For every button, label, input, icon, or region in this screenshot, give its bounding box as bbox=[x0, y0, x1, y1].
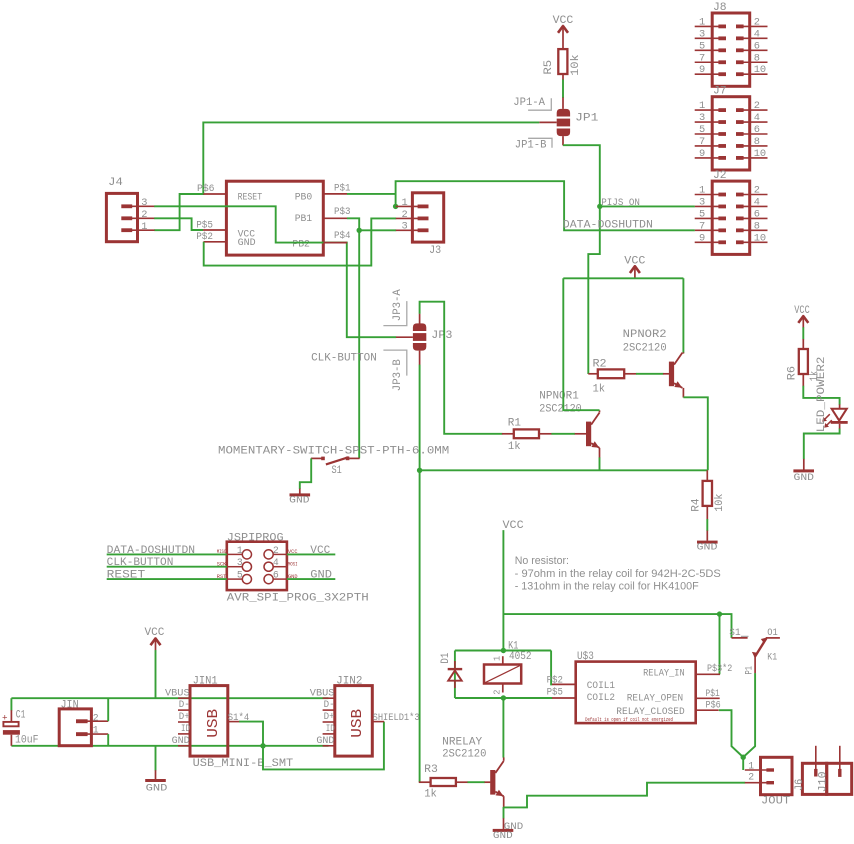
svg-text:6: 6 bbox=[754, 40, 760, 52]
wire JP3-A to R1 left bbox=[420, 302, 503, 434]
pin JP3 top stub bbox=[419, 314, 421, 324]
wire VCC rail to NPNOR2 collector bbox=[682, 278, 684, 353]
svg-text:6: 6 bbox=[754, 124, 760, 136]
svg-text:S1: S1 bbox=[729, 627, 740, 638]
wire NRELAY emitter to GND bbox=[503, 807, 505, 819]
svg-text:1: 1 bbox=[402, 197, 408, 209]
svg-text:P$1: P$1 bbox=[334, 182, 351, 193]
svg-text:9: 9 bbox=[699, 232, 705, 244]
svg-text:1: 1 bbox=[492, 656, 502, 661]
pin P$3 (PB1) bbox=[323, 206, 350, 218]
connector JOUT bbox=[745, 757, 792, 807]
svg-text:C1: C1 bbox=[16, 710, 26, 722]
svg-text:10: 10 bbox=[754, 64, 766, 76]
junction K1 top bbox=[501, 648, 506, 653]
wire VBUS rail bbox=[11, 697, 328, 699]
svg-text:5: 5 bbox=[699, 40, 705, 52]
svg-text:VBUS: VBUS bbox=[165, 687, 190, 698]
svg-text:P$1: P$1 bbox=[706, 688, 720, 699]
label JP3-B with bracket bbox=[383, 350, 406, 391]
svg-text:10k: 10k bbox=[570, 54, 582, 75]
svg-text:NPNOR2: NPNOR2 bbox=[623, 329, 667, 341]
svg-text:5: 5 bbox=[699, 124, 705, 136]
wire bottom rail to R4 top bbox=[420, 469, 708, 471]
ground drop from GND rail bbox=[155, 746, 157, 771]
wire VCC to R6 bbox=[802, 327, 804, 339]
svg-text:R4: R4 bbox=[690, 499, 702, 512]
svg-text:JP1-B: JP1-B bbox=[515, 139, 547, 151]
svg-text:8: 8 bbox=[754, 136, 760, 148]
svg-text:D-: D- bbox=[324, 699, 335, 710]
svg-text:P$3: P$3 bbox=[334, 206, 351, 217]
svg-text:4: 4 bbox=[754, 28, 760, 40]
connector JIN2 USB_MINI-B_SMT bbox=[310, 675, 420, 756]
jumper JP1 bbox=[557, 109, 599, 136]
wire NRELAY emitter to JOUT pin 2 bbox=[504, 783, 746, 808]
svg-text:SHIELD1*3: SHIELD1*3 bbox=[373, 712, 420, 723]
svg-text:4: 4 bbox=[273, 557, 279, 568]
label JP1-B with bracket bbox=[515, 138, 552, 151]
LED LED_POWER2 bbox=[816, 357, 848, 433]
svg-text:1k: 1k bbox=[593, 383, 606, 395]
svg-text:P$4: P$4 bbox=[334, 230, 351, 241]
svg-text:VBUS: VBUS bbox=[310, 687, 335, 698]
connector J2 bbox=[695, 170, 768, 255]
svg-text:9: 9 bbox=[699, 64, 705, 76]
power VCC (top, above R5) bbox=[553, 15, 574, 49]
svg-text:3: 3 bbox=[402, 221, 408, 233]
svg-text:K1: K1 bbox=[767, 651, 777, 662]
power VCC (NPN NOR) bbox=[624, 256, 646, 279]
junction at J3 pin3 net bbox=[357, 228, 362, 233]
wire R2 to NPNOR2 base bbox=[636, 373, 663, 375]
svg-text:P1: P1 bbox=[744, 666, 755, 675]
svg-text:PB0: PB0 bbox=[295, 191, 313, 202]
wire P$2 to J3 pin2 bbox=[204, 218, 397, 265]
IC main controller box bbox=[226, 181, 323, 255]
svg-text:2: 2 bbox=[754, 185, 760, 197]
svg-text:- 131ohm in the relay coil for: - 131ohm in the relay coil for HK4100F bbox=[515, 580, 699, 592]
capacitor C1 10uF bbox=[2, 710, 39, 747]
svg-text:GND: GND bbox=[697, 542, 718, 554]
resistor R5 10k bbox=[543, 49, 582, 80]
IC U$3 relay bbox=[576, 651, 696, 723]
wire PIJS_ON to J2 pin 3 bbox=[600, 205, 695, 207]
wire R1 to NPNOR1 base bbox=[551, 433, 575, 435]
svg-text:6: 6 bbox=[273, 570, 279, 581]
label JP1-A with bracket bbox=[513, 97, 551, 110]
wire right branch to P$2 pin bbox=[551, 651, 552, 685]
pin P$2 of U$3 bbox=[547, 674, 576, 685]
pin P$1 of U$3 bbox=[696, 688, 720, 699]
svg-text:1: 1 bbox=[699, 100, 705, 112]
wire JP1-B to PIJS_ON junction and down to R2 bbox=[563, 145, 600, 374]
pin P$1 (PB0) bbox=[323, 182, 350, 194]
wire NPNOR1 collector to VCC rail bbox=[563, 278, 599, 410]
svg-text:RELAY_CLOSED: RELAY_CLOSED bbox=[616, 706, 684, 718]
svg-text:GND: GND bbox=[794, 472, 815, 484]
wire LED to GND bbox=[804, 429, 840, 460]
connector J6 bbox=[794, 746, 827, 795]
svg-text:JP1-A: JP1-A bbox=[513, 97, 545, 109]
svg-text:J3: J3 bbox=[429, 245, 441, 257]
svg-text:RESET: RESET bbox=[238, 192, 263, 203]
svg-text:VCC: VCC bbox=[794, 305, 810, 317]
svg-text:7: 7 bbox=[699, 52, 705, 64]
resistor R6 1k bbox=[786, 339, 821, 386]
wire JP3-B down to junction and R3 bbox=[419, 365, 421, 783]
wire R3 to NRELAY base bbox=[468, 781, 485, 783]
svg-text:2: 2 bbox=[141, 209, 147, 221]
wire VCC to relay contact junction bbox=[503, 614, 731, 638]
svg-text:VCC: VCC bbox=[145, 627, 165, 639]
tiny pin names on JSPIPROG bbox=[217, 549, 298, 580]
wire GND rail bbox=[11, 745, 328, 747]
svg-text:USB: USB bbox=[206, 708, 222, 737]
pin S1 gnd stub bbox=[299, 489, 301, 494]
pin JP1 middle stub bbox=[539, 121, 556, 123]
pin P$6 (RESET) bbox=[197, 183, 226, 194]
pin P$5 of U$3 bbox=[547, 686, 576, 698]
svg-text:5: 5 bbox=[237, 570, 243, 581]
svg-text:AVR_SPI_PROG_3X2PTH: AVR_SPI_PROG_3X2PTH bbox=[227, 592, 369, 605]
svg-text:1: 1 bbox=[237, 545, 243, 556]
svg-text:3: 3 bbox=[237, 557, 243, 568]
svg-text:2: 2 bbox=[273, 545, 279, 556]
jumper JP3 bbox=[413, 323, 453, 350]
svg-text:8: 8 bbox=[754, 52, 760, 64]
svg-text:5: 5 bbox=[699, 208, 705, 220]
svg-text:RELAY_IN: RELAY_IN bbox=[643, 668, 685, 680]
svg-text:JP3-B: JP3-B bbox=[392, 359, 404, 391]
resistor R3 1k bbox=[419, 764, 468, 800]
svg-text:2: 2 bbox=[402, 209, 408, 221]
resistor R2 1k bbox=[588, 359, 636, 396]
wire P$6 to JOUT junction bbox=[719, 710, 743, 757]
svg-text:JP3-A: JP3-A bbox=[392, 289, 404, 321]
svg-text:8: 8 bbox=[754, 220, 760, 232]
transistor NRELAY 2SC2120 bbox=[442, 736, 504, 807]
svg-text:MOSI: MOSI bbox=[288, 562, 298, 568]
pin JP1-A red stub bbox=[562, 98, 564, 109]
svg-text:9: 9 bbox=[699, 148, 705, 160]
svg-text:PB1: PB1 bbox=[295, 213, 313, 224]
wire D1 branch down bbox=[454, 651, 456, 699]
svg-text:GND: GND bbox=[493, 830, 513, 842]
wire JIN pin1 to GND rail bbox=[107, 734, 109, 746]
ground symbol near S1 bbox=[289, 493, 310, 506]
pin P$6 of U$3 bbox=[696, 699, 721, 710]
wire K1 bottom rail bbox=[455, 697, 552, 699]
wire K1 top rail bbox=[455, 650, 551, 652]
wire S1 to GND bbox=[300, 458, 311, 489]
note text: relay coil resistance bbox=[515, 555, 721, 592]
pin P$5 (VCC) bbox=[196, 219, 226, 230]
wire J4 pin2 to P$5 bbox=[154, 218, 203, 230]
svg-text:JOUT: JOUT bbox=[761, 795, 791, 807]
wire R5 to JP1 pin A bbox=[562, 80, 564, 99]
wire RESET net: JP1 middle to P$6 and J4 pin 1 bbox=[154, 122, 539, 230]
svg-text:R3: R3 bbox=[424, 764, 438, 776]
svg-text:RELAY_OPEN: RELAY_OPEN bbox=[627, 693, 683, 705]
svg-text:3: 3 bbox=[699, 28, 705, 40]
connector J4 bbox=[106, 177, 154, 242]
svg-text:1k: 1k bbox=[424, 788, 437, 800]
svg-text:JP1: JP1 bbox=[575, 112, 598, 125]
net label VCC (JSPIPROG right) bbox=[287, 545, 335, 557]
svg-text:1: 1 bbox=[141, 221, 147, 233]
svg-text:2: 2 bbox=[748, 772, 754, 783]
svg-text:P$3*2: P$3*2 bbox=[707, 663, 732, 674]
svg-text:GND: GND bbox=[172, 735, 190, 746]
svg-text:10: 10 bbox=[754, 232, 766, 244]
resistor R4 10k bbox=[690, 470, 726, 519]
ground symbol below NRELAY (two overlapping) bbox=[493, 821, 524, 842]
wire CLK-BUTTON: P$3 to J3 pin3 and S1 bbox=[347, 218, 359, 230]
svg-text:1: 1 bbox=[93, 724, 99, 735]
connector J8 bbox=[695, 2, 768, 87]
power VCC (LED) bbox=[794, 305, 810, 328]
svg-text:6: 6 bbox=[754, 208, 760, 220]
svg-text:1: 1 bbox=[699, 16, 705, 28]
connector J3 bbox=[396, 193, 444, 257]
svg-text:MOMENTARY-SWITCH-SPST-PTH-6.0M: MOMENTARY-SWITCH-SPST-PTH-6.0MM bbox=[218, 446, 449, 458]
net label RESET (JSPIPROG) bbox=[107, 570, 227, 582]
svg-text:P$6: P$6 bbox=[706, 699, 721, 710]
connector JIN bbox=[59, 700, 108, 746]
wire junction to JOUT pin 1 bbox=[742, 757, 744, 770]
svg-text:GND: GND bbox=[289, 495, 309, 507]
junction K1 bottom bbox=[501, 695, 506, 700]
svg-text:R1: R1 bbox=[508, 418, 522, 430]
wire VCC to VBUS rail bbox=[155, 650, 157, 698]
svg-text:COIL1: COIL1 bbox=[587, 680, 615, 692]
svg-text:1: 1 bbox=[748, 760, 754, 771]
junction PIJS_ON bbox=[597, 204, 602, 209]
net label GND (JSPIPROG right) bbox=[287, 570, 335, 582]
wire S1*4 to shield net bbox=[239, 722, 384, 770]
svg-text:J4: J4 bbox=[108, 177, 123, 189]
svg-text:Default is open if coil not en: Default is open if coil not energized bbox=[585, 717, 673, 723]
svg-text:R6: R6 bbox=[786, 366, 798, 380]
svg-text:D1: D1 bbox=[440, 652, 452, 663]
svg-text:1: 1 bbox=[699, 185, 705, 197]
svg-text:LED_POWER2: LED_POWER2 bbox=[816, 357, 828, 433]
relay contact K1 switch bbox=[729, 627, 780, 675]
svg-text:USB: USB bbox=[350, 708, 366, 737]
svg-text:4052: 4052 bbox=[509, 651, 532, 663]
pin P$2 (GND) bbox=[196, 231, 226, 242]
svg-text:10uF: 10uF bbox=[15, 734, 39, 746]
relay coil K1 4052 bbox=[484, 641, 532, 695]
svg-text:3: 3 bbox=[699, 112, 705, 124]
svg-text:3: 3 bbox=[141, 197, 147, 209]
svg-text:2: 2 bbox=[754, 100, 760, 112]
net label CLK-BUTTON (JSPIPROG) bbox=[107, 557, 227, 569]
svg-text:GND: GND bbox=[316, 735, 334, 746]
pin P$3*2 of U$3 (RELAY_IN) bbox=[696, 663, 733, 674]
svg-text:ID: ID bbox=[181, 723, 190, 734]
net label DATA-DOSHUTDN (JSPIPROG) bbox=[107, 545, 227, 557]
wire P1 down to JOUT junction bbox=[743, 673, 755, 757]
svg-text:R2: R2 bbox=[593, 359, 607, 371]
transistor NPNOR1 2SC2120 bbox=[539, 391, 599, 458]
wire JIN pin2 to VBUS rail bbox=[107, 698, 109, 721]
wire VCC down to K1 junction bbox=[502, 530, 504, 650]
svg-text:D-: D- bbox=[179, 699, 190, 710]
svg-text:P$2: P$2 bbox=[547, 674, 563, 685]
wire C1 branch bbox=[10, 698, 12, 710]
svg-text:P$6: P$6 bbox=[197, 183, 215, 194]
pin JP3 bottom stub bbox=[419, 351, 421, 365]
diode D1 bbox=[440, 652, 462, 688]
wire junction down to RELAY_IN pin P$3*2 bbox=[719, 614, 721, 674]
switch S1 bbox=[311, 457, 360, 478]
svg-text:4: 4 bbox=[754, 196, 760, 208]
svg-text:1k: 1k bbox=[508, 441, 521, 453]
svg-text:No resistor:: No resistor: bbox=[515, 555, 569, 567]
svg-text:2SC2120: 2SC2120 bbox=[623, 342, 667, 354]
svg-text:ID: ID bbox=[326, 723, 335, 734]
svg-text:4: 4 bbox=[754, 112, 760, 124]
svg-text:COIL2: COIL2 bbox=[587, 692, 615, 704]
svg-text:10: 10 bbox=[754, 148, 766, 160]
svg-text:O1: O1 bbox=[767, 627, 778, 638]
wire R6 to LED bbox=[803, 386, 839, 405]
connector J7 bbox=[695, 86, 768, 171]
svg-text:P$5: P$5 bbox=[196, 219, 213, 230]
svg-text:2: 2 bbox=[93, 713, 99, 724]
wire R4 to GND bbox=[706, 519, 708, 531]
ground symbol below R4 bbox=[697, 541, 718, 554]
connector JSPIPROG AVR SPI header bbox=[227, 531, 369, 604]
connector JIN1 USB_MINI-B_SMT bbox=[165, 675, 293, 770]
pin P$4 stub redrawn over wire bbox=[323, 242, 347, 244]
wire DATA-DOSHUTDN: P$1 to J2 pin7 bbox=[347, 193, 396, 195]
label JP3-A with bracket bbox=[383, 289, 406, 326]
wire VCC rail horizontal bbox=[563, 277, 683, 279]
ground symbol below GND rail bbox=[145, 779, 167, 795]
pin JP1-B red stub bbox=[562, 136, 564, 145]
junction shield/GND bbox=[260, 743, 265, 748]
svg-text:GND: GND bbox=[238, 237, 256, 248]
svg-text:10k: 10k bbox=[714, 494, 726, 512]
svg-text:GND: GND bbox=[146, 783, 168, 795]
connector J10 bbox=[817, 746, 851, 795]
svg-text:PB2: PB2 bbox=[292, 239, 310, 250]
svg-text:7: 7 bbox=[699, 136, 705, 148]
svg-text:JP3: JP3 bbox=[431, 329, 452, 342]
svg-text:D+: D+ bbox=[324, 711, 335, 722]
power VCC (USB) bbox=[145, 627, 165, 651]
svg-text:2: 2 bbox=[492, 690, 502, 695]
pin P$4 (PB2) bbox=[323, 230, 350, 243]
svg-text:DATA-DOSHUTDN: DATA-DOSHUTDN bbox=[563, 220, 653, 232]
svg-text:NRELAY: NRELAY bbox=[442, 736, 482, 748]
junction at J3 pin1 net bbox=[393, 204, 398, 209]
wire NPNOR1 emitter to bottom rail bbox=[599, 457, 601, 470]
wire K1 bottom to NRELAY collector bbox=[502, 698, 504, 758]
svg-text:S1: S1 bbox=[332, 465, 343, 477]
ground symbol below LED bbox=[793, 469, 814, 483]
transistor NPNOR2 2SC2120 bbox=[623, 329, 684, 397]
svg-text:D+: D+ bbox=[179, 711, 190, 722]
svg-text:VCC: VCC bbox=[503, 520, 525, 532]
svg-text:USB_MINI-B_SMT: USB_MINI-B_SMT bbox=[193, 757, 294, 770]
svg-text:3: 3 bbox=[699, 196, 705, 208]
svg-text:2: 2 bbox=[754, 16, 760, 28]
junction JOUT pin1 bbox=[741, 755, 746, 760]
svg-text:J6: J6 bbox=[794, 779, 806, 791]
svg-text:- 97ohm in the relay coil for: - 97ohm in the relay coil for 942H-2C-5D… bbox=[515, 568, 721, 580]
svg-text:P$2: P$2 bbox=[196, 231, 213, 242]
svg-text:7: 7 bbox=[699, 220, 705, 232]
resistor R1 1k bbox=[502, 418, 552, 453]
svg-text:R5: R5 bbox=[543, 60, 555, 75]
svg-text:2SC2120: 2SC2120 bbox=[442, 748, 486, 760]
svg-text:CLK-BUTTON: CLK-BUTTON bbox=[311, 353, 377, 365]
junction JP3-B / bottom rail bbox=[417, 468, 422, 473]
svg-text:PIJS_ON: PIJS_ON bbox=[601, 197, 640, 208]
junction at relay contact feed bbox=[717, 611, 722, 616]
wire NPNOR2 emitter to bottom rail via R4 node bbox=[683, 397, 707, 470]
wire J4 pin3 through IC to P$4 and JP3 middle bbox=[154, 206, 396, 337]
svg-text:J10: J10 bbox=[817, 772, 829, 793]
pin JP3 middle stub bbox=[396, 336, 413, 338]
svg-text:P$5: P$5 bbox=[547, 686, 563, 697]
svg-text:NPNOR1: NPNOR1 bbox=[539, 391, 579, 403]
